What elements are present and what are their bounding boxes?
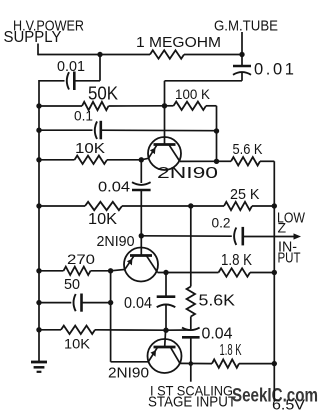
wire 6.5V rail: [273, 161, 275, 401]
resistor 50K: [82, 102, 109, 110]
svg-text:Z: Z: [278, 220, 287, 236]
wire 10K2 row mid: [122, 205, 191, 207]
wire 50K row right: [109, 105, 165, 107]
transistor Q1 circle: [148, 137, 181, 170]
transistor Q3 emitter: [149, 347, 158, 362]
transistor Q1 emitter: [141, 145, 157, 160]
wire collector tap down: [165, 273, 167, 297]
svg-text:5.6K: 5.6K: [199, 293, 236, 310]
transistor Q3 base lead: [164, 330, 167, 347]
wire Q3 collector row left: [180, 362, 212, 364]
node rail-1.8K1: [272, 270, 277, 275]
resistor 100K: [174, 102, 207, 110]
svg-text:270: 270: [67, 251, 95, 267]
svg-text:PUT: PUT: [278, 250, 301, 267]
wire 50 row right: [82, 302, 111, 304]
wire top rail right segment: [184, 54, 242, 56]
transistor Q2 base bar: [130, 254, 152, 257]
wire from G.M. cap to 100K node: [165, 80, 243, 82]
capacitor 0.01 G.M. lead bottom: [241, 72, 243, 80]
node rail-50K: [36, 103, 41, 108]
node rail-0.1: [36, 128, 41, 133]
transistor Q1 collector: [169, 145, 180, 162]
capacitor 0.04 second curved plate: [157, 305, 176, 308]
transistor Q1 base bar: [154, 143, 176, 146]
wire 50K row left: [39, 105, 82, 107]
capacitor 0.04 first curved plate: [132, 182, 151, 185]
capacitor 0.04 third straight plate: [182, 336, 200, 339]
wire 10K3 row right: [95, 329, 166, 331]
node 100K-collector: [214, 128, 219, 133]
transistor Q2 circle: [124, 248, 158, 282]
wire emitter bus corner to Q3: [111, 361, 149, 363]
wire 10K1 row left: [39, 159, 75, 161]
wire 100K down to collector node: [216, 106, 218, 162]
capacitor 0.01 H.V. straight plate: [73, 72, 76, 91]
node rail-1.8K2: [272, 361, 277, 366]
input arrowhead: [294, 233, 302, 239]
svg-text:10K: 10K: [88, 211, 117, 228]
resistor R 1 MEGOHM: [150, 50, 184, 58]
wire top rail left segment: [38, 54, 150, 56]
svg-text:0.2: 0.2: [212, 214, 231, 230]
svg-text:0.04: 0.04: [124, 295, 152, 312]
wire 0.04 second down: [165, 305, 167, 330]
node rail-10K3: [36, 327, 41, 332]
node rail-270: [36, 268, 41, 273]
node emitter Q1: [139, 157, 144, 162]
capacitor 0.01 H.V. bypass lead: [39, 80, 65, 82]
transistor Q2 collector: [147, 256, 158, 273]
transistor Q1 base lead: [164, 106, 166, 145]
transistor Q3 base bar: [154, 346, 176, 349]
resistor 1.8K second: [212, 359, 239, 367]
wire 0.04 third down: [190, 337, 192, 381]
node emitter bus top: [108, 268, 113, 273]
svg-text:50K: 50K: [88, 84, 118, 104]
node rail-50: [36, 300, 41, 305]
svg-text:5.6 K: 5.6 K: [233, 141, 263, 158]
wire 10K3 row left: [39, 329, 61, 331]
capacitor 50 straight plate: [80, 294, 83, 312]
svg-text:1 MEGOHM: 1 MEGOHM: [136, 34, 221, 51]
capacitor 0.01 H.V. lead right: [74, 80, 100, 82]
resistor 10K third: [61, 326, 95, 334]
wire emitter Q1 down: [140, 160, 142, 183]
svg-text:STAGE INPUT: STAGE INPUT: [148, 394, 236, 411]
resistor 270: [64, 267, 91, 275]
wire 0.2 row right to input: [243, 236, 296, 238]
svg-text:G.M.TUBE: G.M.TUBE: [214, 18, 278, 35]
resistor 5.6K first: [231, 157, 260, 165]
wire corner down to base node: [164, 81, 166, 106]
svg-text:SeekIC.com: SeekIC.com: [232, 386, 318, 407]
node collector row right: [214, 159, 219, 164]
wire H.V. supply stub: [37, 44, 39, 56]
svg-text:0.1: 0.1: [74, 108, 93, 124]
wire 100K right lead: [206, 105, 217, 107]
capacitor 0.01 G.M. curved plate: [233, 72, 251, 75]
svg-text:10K: 10K: [64, 336, 91, 352]
svg-text:1.8 K: 1.8 K: [221, 252, 252, 269]
capacitor 0.04 first straight plate: [132, 189, 151, 192]
svg-text:2NI90: 2NI90: [97, 233, 135, 250]
node junction top-left: [97, 52, 102, 57]
resistor 10K second: [85, 202, 122, 210]
svg-text:100 K: 100 K: [175, 86, 211, 102]
wire divider down: [190, 206, 192, 287]
transistor Q3 collector: [171, 347, 181, 363]
capacitor 0.1 curved plate: [95, 121, 97, 139]
resistor 10K first: [75, 156, 108, 164]
transistor Q3 circle: [148, 339, 182, 373]
node output tap: [189, 361, 194, 366]
resistor 25K: [224, 202, 252, 210]
capacitor 0.04 third curved plate: [182, 328, 200, 331]
svg-text:25 K: 25 K: [230, 186, 260, 203]
capacitor 0.04 second straight plate: [157, 295, 176, 298]
node junction G.M. tube: [239, 52, 244, 57]
transistor Q3 emitter arrow: [151, 350, 157, 357]
wire Q3 collector row right: [239, 363, 274, 365]
node base Q2: [139, 233, 144, 238]
wire 100K left lead: [165, 105, 174, 107]
wire 50 row left: [39, 302, 71, 304]
node emitter bus 50pf: [108, 300, 113, 305]
node base node Q1: [162, 103, 167, 108]
svg-text:0.04: 0.04: [202, 326, 233, 343]
wire emitter bus: [110, 271, 112, 362]
wire up to H.V. rail: [99, 55, 101, 81]
node rail-25K: [272, 203, 277, 208]
capacitor 0.2 straight plate: [242, 227, 245, 246]
capacitor 0.2 curved plate: [234, 228, 236, 245]
svg-text:50: 50: [64, 276, 80, 293]
node divider node: [188, 203, 193, 208]
wire 0.1 row left: [39, 129, 93, 131]
svg-text:0.04: 0.04: [98, 179, 130, 196]
node rail-10K1: [36, 157, 41, 162]
capacitor 0.01 G.M. lead top: [241, 55, 243, 66]
resistor 5.6K second vertical: [187, 287, 195, 317]
wire Q2 collector row right: [250, 272, 274, 274]
wire Q1 collector to rail: [180, 160, 217, 162]
node base node Q3: [163, 328, 168, 333]
resistor 1.8K first: [219, 268, 251, 276]
wire 5.6K second to cap: [190, 317, 192, 330]
transistor Q2 emitter: [111, 256, 134, 271]
wire 10K1 row right: [107, 159, 141, 161]
svg-text:0.01: 0.01: [254, 61, 297, 79]
wire ground rail: [38, 80, 40, 362]
wire 270 row left: [39, 270, 64, 272]
transistor Q2 base lead: [140, 236, 142, 256]
svg-text:2NI90: 2NI90: [157, 165, 218, 182]
wire 0.1 row right: [101, 129, 217, 132]
capacitor 0.01 G.M. straight plate: [233, 65, 251, 68]
wire 5.6K row right: [260, 160, 274, 162]
svg-text:2NI90: 2NI90: [108, 365, 149, 382]
node rail-10K2: [36, 203, 41, 208]
capacitor 0.01 H.V. curved plate: [67, 72, 69, 89]
wire 10K2 row left: [39, 205, 85, 207]
wire base node to 0.04 third: [166, 329, 191, 331]
ground symbol: [31, 361, 47, 364]
capacitor 0.1 straight plate: [100, 121, 103, 140]
svg-text:1.8 K: 1.8 K: [220, 342, 242, 359]
wire 25K row left: [191, 205, 224, 207]
wire Q2 collector row left: [158, 272, 219, 274]
transistor Q2 emitter arrow: [127, 259, 132, 266]
wire 25K row right: [252, 205, 274, 207]
wire 5.6K row left: [217, 160, 232, 162]
wire G.M. tube stub: [241, 32, 243, 55]
transistor Q1 emitter arrow: [150, 148, 156, 155]
capacitor 50 curved plate: [74, 294, 76, 311]
wire 270 row right: [91, 270, 111, 272]
svg-text:10K: 10K: [75, 140, 105, 157]
svg-text:0.01: 0.01: [57, 58, 85, 75]
svg-text:SUPPLY: SUPPLY: [4, 29, 62, 46]
wire 0.2 row left: [141, 235, 232, 237]
wire 0.04 first down to Q2 base: [140, 190, 142, 236]
node collector Q2 tap: [163, 270, 168, 275]
